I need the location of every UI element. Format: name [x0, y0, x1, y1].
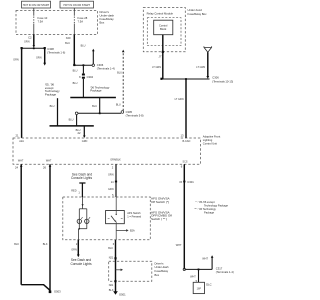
wire to other circuits (up arrow from C306) — [92, 49, 95, 64]
wire C308 right stub to other circuits (down arrow) — [43, 48, 46, 65]
svg-text:HOT IN ON OR START: HOT IN ON OR START — [23, 3, 50, 7]
lamp LED2 (indicator) — [85, 217, 90, 223]
svg-text:BLU: BLU — [116, 104, 121, 107]
node HOT IN ON OR START (left power label box) — [22, 1, 51, 8]
node See Dash and Console Lights (top) — [71, 172, 92, 180]
node HOT IN ON OR START (right power label box) — [60, 1, 94, 8]
svg-text:BLU: BLU — [73, 82, 78, 85]
node option label: '06 Technology Package — [90, 85, 110, 92]
wire C306 to C304 — [82, 65, 84, 73]
svg-text:HOT IN ON OR START: HOT IN ON OR START — [63, 3, 90, 7]
svg-text:21: 21 — [16, 134, 19, 138]
svg-text:GRN: GRN — [71, 248, 77, 251]
fuse 10 (7.5A) — [34, 16, 48, 35]
svg-text:LT GRN: LT GRN — [175, 98, 184, 101]
node AFS switch labels right — [151, 197, 172, 221]
svg-text:BLU: BLU — [117, 72, 122, 75]
junction connector C308 (terminals 1-6) bus — [21, 47, 66, 54]
wire pin5 down to switch — [115, 197, 117, 211]
wire illumination return (down arrow) — [77, 240, 80, 257]
svg-text:BLK: BLK — [109, 289, 114, 292]
wire C304 down to top option bar — [82, 79, 84, 98]
node control block — [154, 20, 173, 35]
wire fuse28 output down to C306 — [73, 35, 75, 66]
svg-text:GRN: GRN — [13, 58, 19, 61]
wire lower bar down to AFS pin 22 — [83, 126, 86, 138]
connector N21 (entry) — [109, 256, 117, 259]
svg-text:WHT: WHT — [46, 160, 52, 163]
wire illumination feed bar — [79, 183, 85, 197]
wire left long run C308 to AFS pin 21 — [21, 48, 23, 138]
under-hood fuse/relay box (dashed) — [143, 8, 207, 52]
svg-text:** : '06 Technology: ** : '06 Technology — [195, 207, 217, 211]
wire C306 down to AFS pin 13 — [185, 79, 187, 138]
svg-text:(Terminals 10-13): (Terminals 10-13) — [212, 80, 233, 84]
svg-text:(Terminals 1-4): (Terminals 1-4) — [216, 270, 234, 274]
svg-text:AFS Switch: AFS Switch — [127, 211, 141, 215]
wire AFS pin 26 to ground — [49, 164, 52, 291]
svg-text:B2A: B2A — [130, 230, 135, 233]
svg-text:Lighting: Lighting — [203, 138, 213, 142]
svg-text:Switch ( ** ): Switch ( ** ) — [151, 217, 167, 221]
svg-text:1 = Pressed: 1 = Pressed — [127, 214, 141, 218]
svg-text:BLU: BLU — [73, 69, 78, 72]
svg-text:BLK: BLK — [14, 243, 19, 246]
svg-text:24: 24 — [15, 165, 18, 169]
svg-text:Technology Package: Technology Package — [204, 203, 228, 207]
wire fuse10 output down to C308 — [33, 35, 36, 48]
svg-text:Under-dash: Under-dash — [155, 265, 170, 269]
svg-text:Console Lights: Console Lights — [70, 262, 91, 266]
svg-text:C2: C2 — [28, 36, 32, 40]
svg-text:G503: G503 — [54, 290, 61, 294]
svg-text:BLU: BLU — [69, 118, 74, 121]
wire control block output (LT GRN) — [162, 35, 164, 79]
svg-text:Package: Package — [90, 89, 102, 93]
connector N21 (exit) — [109, 280, 117, 287]
wire branch arrow inside bottom box — [116, 269, 124, 272]
node lower option bus bar — [50, 125, 94, 127]
wire branch A ('05-'06 except) down to lower bar — [57, 98, 59, 126]
adaptive front lighting control unit (dashed box) — [13, 134, 221, 164]
svg-text:WHT: WHT — [18, 160, 24, 163]
svg-text:(Terminals 1-4): (Terminals 1-4) — [97, 67, 115, 71]
node legend (asterisks) — [195, 200, 229, 215]
AFS switch assembly (dashed box) — [63, 197, 151, 240]
wire switch down to N21 — [115, 240, 117, 281]
svg-text:N21: N21 — [109, 284, 114, 287]
lamp LED1 (indicator) — [77, 217, 82, 223]
junction connector C306 (terminals 1-4) bus — [73, 63, 115, 70]
connector C304 (in-line) — [79, 74, 93, 80]
wire N21 to ground — [115, 281, 117, 291]
svg-text:BLK: BLK — [43, 243, 48, 246]
svg-text:WHT: WHT — [202, 258, 208, 261]
node See Dash and Console Lights (bottom) — [70, 258, 91, 266]
svg-text:LT GRN: LT GRN — [152, 66, 161, 69]
junction connector C305 mid bus — [75, 110, 143, 117]
wire AFS pin 2 down to switch — [115, 164, 117, 197]
svg-text:A2A: A2A — [19, 140, 24, 143]
svg-text:GRN: GRN — [24, 40, 30, 43]
svg-text:Under-hood: Under-hood — [188, 8, 203, 12]
wire ground bus joining pin24 run to pin26 run — [21, 285, 50, 291]
svg-text:WHT: WHT — [190, 275, 196, 278]
ground G503 — [49, 290, 61, 294]
wire from triangle down to C306 bus — [206, 52, 209, 79]
wire from right HOT box into fuse box — [73, 8, 75, 16]
wire inside switch box (illumination to LEDs) — [79, 197, 87, 219]
svg-text:7.5A: 7.5A — [78, 20, 84, 24]
svg-text:13: 13 — [181, 134, 184, 138]
svg-text:Console Lights: Console Lights — [71, 176, 92, 180]
svg-text:B-CAN: B-CAN — [183, 140, 191, 143]
node page-link triangle symbol — [204, 46, 212, 52]
svg-text:C317: C317 — [216, 267, 223, 271]
svg-text:Driver's: Driver's — [155, 261, 165, 265]
wire from left HOT box into fuse box — [33, 8, 35, 16]
svg-text:22: 22 — [78, 131, 81, 135]
svg-text:BLU: BLU — [81, 45, 86, 48]
svg-text:SCS: SCS — [183, 161, 188, 164]
relay control module (dashed box) — [147, 12, 181, 46]
wire AFS pin 24 to ground run — [20, 164, 23, 284]
svg-text:Control: Control — [159, 23, 168, 27]
svg-text:Fuse/Relay Box: Fuse/Relay Box — [188, 12, 208, 16]
svg-text:BLK: BLK — [108, 247, 113, 250]
svg-text:RED: RED — [71, 189, 76, 192]
svg-text:Fuse 28: Fuse 28 — [78, 16, 88, 20]
connector C301 terminal 14 — [115, 181, 117, 183]
driver's under-dash fuse/relay box (bottom, dashed) — [109, 261, 169, 281]
node top option bus bar — [70, 97, 116, 99]
svg-text:* : '05-'06 except: * : '05-'06 except — [196, 200, 215, 204]
junction connector C306 (terminals 10-13) bus — [160, 76, 233, 84]
wire to other circuits (up arrow from C317) — [211, 255, 214, 269]
svg-text:Relay Control Module: Relay Control Module — [147, 12, 174, 16]
fuse 28 (7.5A) — [74, 16, 87, 35]
svg-text:GRN: GRN — [36, 56, 42, 59]
svg-text:Package: Package — [204, 211, 215, 215]
svg-text:WHT: WHT — [176, 244, 182, 247]
svg-text:Box: Box — [100, 21, 105, 25]
driver's under-dash fuse/relay box (top, dashed) — [16, 10, 115, 35]
svg-text:Package: Package — [45, 92, 57, 96]
wire switch output down — [115, 224, 117, 240]
svg-text:Fuse 10: Fuse 10 — [38, 16, 48, 20]
svg-text:GRN/BLK: GRN/BLK — [110, 159, 121, 162]
switch SW1 (AFS switch) — [106, 211, 142, 224]
svg-text:16P: 16P — [197, 288, 202, 291]
svg-text:(Terminals 5-8): (Terminals 5-8) — [126, 113, 144, 117]
svg-text:Block: Block — [160, 27, 167, 31]
node option label: '05-'06 except Technology Package — [45, 83, 60, 97]
junction connector C317 (terminals 1-4) bus — [183, 267, 234, 275]
svg-text:GRN: GRN — [82, 140, 88, 143]
svg-text:DLC: DLC — [206, 283, 211, 287]
svg-text:Control Unit: Control Unit — [203, 142, 217, 146]
svg-text:BLU: BLU — [50, 105, 55, 108]
wire C317 down to DLC — [198, 269, 200, 282]
wire LEDs to pin 2 of switch box — [78, 224, 86, 240]
ground G501 — [113, 291, 126, 296]
svg-text:BLU: BLU — [65, 42, 70, 45]
svg-text:LT GRN: LT GRN — [196, 66, 205, 69]
svg-text:N21: N21 — [109, 256, 114, 259]
svg-text:7.5A: 7.5A — [38, 20, 44, 24]
node DLC (data link connector) — [193, 282, 211, 293]
connector C301 terminal 15 — [179, 180, 194, 184]
svg-text:G501: G501 — [119, 292, 126, 296]
svg-text:GRN: GRN — [108, 173, 114, 176]
wire C305 left end down to lower bar — [76, 115, 78, 126]
svg-text:Box: Box — [155, 273, 160, 277]
svg-text:Off Switch (*): Off Switch (*) — [151, 200, 169, 204]
svg-text:C306: C306 — [212, 76, 219, 80]
svg-text:C304: C304 — [87, 75, 94, 79]
svg-text:Adaptive Front: Adaptive Front — [203, 134, 221, 138]
svg-text:BLU: BLU — [92, 105, 97, 108]
svg-text:Fuse/Relay: Fuse/Relay — [155, 269, 169, 273]
svg-text:C301: C301 — [187, 180, 194, 184]
wire top bar down to C305 bus — [99, 98, 101, 114]
svg-text:(Terminals 1-6): (Terminals 1-6) — [47, 50, 65, 54]
node internal labels above AFS bottom edge — [18, 159, 188, 164]
wire AFS pin 6 (SCS) down to C317 — [183, 164, 185, 269]
svg-text:X20: X20 — [66, 36, 71, 40]
wire branch arrow to B2A — [116, 229, 135, 232]
svg-text:GRN: GRN — [108, 188, 114, 191]
wire dashed variant riser with up arrow — [122, 50, 125, 111]
svg-text:26: 26 — [43, 165, 46, 169]
